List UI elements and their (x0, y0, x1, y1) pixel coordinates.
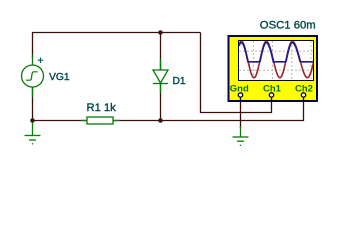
resistor R1 (81, 117, 120, 124)
svg-text:D1: D1 (173, 76, 186, 87)
wire Ch1 branch vertical and horizontal (201, 33, 272, 113)
screen gridlines (239, 41, 314, 80)
ground symbol scope (233, 127, 249, 146)
junction dot diode top (158, 30, 163, 35)
junction dot diode bottom (158, 118, 163, 123)
wire diode branch vertical (160, 33, 162, 121)
svg-text:Ch1: Ch1 (263, 84, 282, 95)
voltage generator VG1 (22, 55, 44, 97)
scope trace Ch2 blue rectified (239, 43, 314, 62)
junction dot VG1 bottom (30, 118, 35, 123)
svg-text:VG1: VG1 (49, 72, 70, 83)
svg-text:R1 1k: R1 1k (87, 102, 117, 114)
ground symbol left (25, 122, 41, 144)
wire scope Gnd to ground (240, 102, 242, 128)
scope terminal Ch1 (269, 93, 273, 101)
oscilloscope OSC1 body (229, 36, 318, 101)
wire VG1 bottom lead (32, 86, 34, 121)
VG1 plus sign (38, 58, 43, 64)
scope terminal Ch2 (301, 93, 305, 101)
svg-text:OSC1 60m: OSC1 60m (260, 19, 316, 31)
oscilloscope screen (239, 41, 314, 81)
wire bottom rail to Ch2 (33, 102, 304, 121)
svg-text:Ch2: Ch2 (295, 84, 313, 95)
scope trace Ch1 red sine (239, 41, 314, 77)
diode D1 (153, 59, 168, 93)
svg-text:Gnd: Gnd (230, 84, 249, 95)
wire top rail VG1+ to diode to right corner (33, 33, 201, 59)
scope terminal Gnd (238, 93, 242, 101)
